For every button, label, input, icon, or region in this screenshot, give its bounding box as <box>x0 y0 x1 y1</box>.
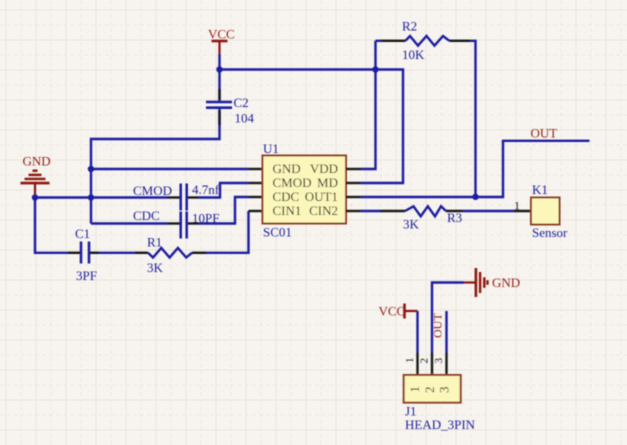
svg-text:C1: C1 <box>75 226 90 241</box>
svg-text:2: 2 <box>419 358 431 364</box>
pin stub J1 pin2 <box>431 353 433 376</box>
svg-text:3K: 3K <box>147 260 164 275</box>
wire GND net down to C1 row <box>35 195 68 253</box>
op-amp U1 (IC SC01) <box>263 141 347 240</box>
wire black lead right of 4.7nf <box>188 196 199 198</box>
wire black lead left of 4.7nf <box>167 196 180 198</box>
svg-text:VCC: VCC <box>379 304 406 319</box>
svg-text:HEAD_3PIN: HEAD_3PIN <box>405 417 476 432</box>
svg-text:CDC: CDC <box>133 208 160 223</box>
svg-text:VCC: VCC <box>208 27 235 42</box>
capacitor 4.7nf <box>181 182 220 211</box>
wire CMOD net from GND junction <box>35 196 167 198</box>
wire black lead right of R3 <box>446 210 463 212</box>
wire GND pin wire <box>91 168 249 170</box>
power port VCC (J1) <box>379 304 418 319</box>
wire black lead left of 10PF <box>167 222 180 224</box>
wire black lead above C2 top plate <box>218 89 220 100</box>
svg-text:OUT1: OUT1 <box>305 189 338 204</box>
svg-text:10K: 10K <box>402 47 425 62</box>
wire black lead left of R2 <box>382 40 406 42</box>
svg-text:2: 2 <box>422 387 437 394</box>
capacitor 10PF <box>181 211 220 239</box>
connector K1 Sensor <box>531 182 568 240</box>
wire 10PF to U1 CDC pin <box>199 197 249 224</box>
wire black lead below C2 <box>218 111 220 126</box>
pin stub U1 CMOD <box>249 182 263 184</box>
resistor R2 <box>402 19 449 63</box>
capacitor C2 <box>206 95 255 126</box>
svg-text:CDC: CDC <box>273 189 300 204</box>
wire black lead right of 10PF <box>188 222 199 224</box>
junction GND net <box>32 194 38 200</box>
svg-text:1: 1 <box>404 358 416 364</box>
wire OUT1 net to OUT flag <box>361 141 590 197</box>
svg-text:U1: U1 <box>263 141 279 156</box>
pin stub U1 CIN1 <box>249 210 263 212</box>
svg-text:SC01: SC01 <box>263 225 292 240</box>
svg-text:4.7nf: 4.7nf <box>192 182 220 197</box>
svg-text:R2: R2 <box>402 19 417 34</box>
svg-text:C2: C2 <box>234 95 249 110</box>
junction VDD column on VCC rail <box>372 66 378 72</box>
wire R3 to K1 pin 1 <box>463 210 515 212</box>
power port VCC (top) <box>208 27 235 55</box>
wire J1 pin3 (OUT net) <box>445 311 447 353</box>
svg-text:CMOD: CMOD <box>133 183 172 198</box>
svg-text:CIN1: CIN1 <box>273 203 302 218</box>
wire VDD pin up to R2 row <box>361 41 376 169</box>
svg-text:R1: R1 <box>147 235 162 250</box>
svg-text:OUT: OUT <box>531 126 558 141</box>
wire J1 pin2 up to GND <box>432 283 464 353</box>
wire R1 to U1 CIN1 pin <box>206 211 249 253</box>
pin stub U1 MD <box>346 182 361 184</box>
wire VCC rail right to MD pin <box>220 70 404 184</box>
wire black lead right of R1 <box>192 252 206 254</box>
wire black lead left of C1 <box>68 252 80 254</box>
wire VCC stem down to C2 <box>218 54 220 101</box>
wire black lead left of R1 <box>135 252 148 254</box>
svg-text:CIN2: CIN2 <box>309 203 338 218</box>
connector J1 HEAD_3PIN <box>404 375 476 432</box>
pin stub J1 pin3 <box>445 353 447 376</box>
svg-text:3PF: 3PF <box>76 268 97 283</box>
svg-text:Sensor: Sensor <box>532 225 568 240</box>
junction left rail / GND pin wire <box>88 166 94 172</box>
wire R2 right down to OUT1 net <box>470 41 476 197</box>
pin stub U1 CIN2 <box>346 210 361 212</box>
wire C2 bottom to left rail <box>91 108 220 224</box>
pin stub U1 VDD <box>346 168 361 170</box>
svg-text:3: 3 <box>433 358 445 364</box>
wire CIN2 to R3 <box>361 210 380 212</box>
svg-text:1: 1 <box>407 386 422 393</box>
svg-text:3: 3 <box>437 387 452 394</box>
svg-text:K1: K1 <box>532 182 548 197</box>
ground GND (left) <box>21 154 51 195</box>
wire 4.7nf to U1 CMOD pin <box>199 183 249 198</box>
svg-text:GND: GND <box>492 275 520 290</box>
capacitor C1 <box>75 226 97 283</box>
svg-text:1: 1 <box>514 199 520 213</box>
pin stub J1 pin1 <box>416 353 418 376</box>
ground GND (J1) <box>464 268 520 297</box>
junction left rail / CMOD net <box>88 194 94 200</box>
pin stub U1 CDC <box>249 196 263 198</box>
wire black lead right of C1 <box>90 252 99 254</box>
svg-text:3K: 3K <box>403 217 420 232</box>
pin stub U1 OUT1 <box>346 196 361 198</box>
svg-text:OUT: OUT <box>431 313 445 338</box>
svg-text:R3: R3 <box>447 210 462 225</box>
wire black lead left of R3 <box>380 210 405 212</box>
resistor R3 <box>403 206 462 231</box>
svg-text:VDD: VDD <box>310 161 338 176</box>
pin stub K1 pin 1 <box>514 210 531 212</box>
wire CDC net from left rail <box>91 222 167 224</box>
wire C1 to R1 <box>99 252 135 254</box>
svg-text:MD: MD <box>317 175 338 190</box>
svg-text:GND: GND <box>23 154 51 169</box>
junction R2 / OUT1 net <box>472 194 478 200</box>
junction VCC rail <box>216 66 222 72</box>
pin stub U1 GND <box>249 168 263 170</box>
svg-text:CMOD: CMOD <box>273 175 312 190</box>
wire R2 left segment <box>376 40 382 42</box>
wire black lead right of R2 <box>449 40 470 42</box>
wire J1 pin1 up to VCC <box>416 311 418 353</box>
svg-text:104: 104 <box>235 111 255 126</box>
resistor R1 <box>147 235 192 276</box>
svg-text:GND: GND <box>273 161 301 176</box>
